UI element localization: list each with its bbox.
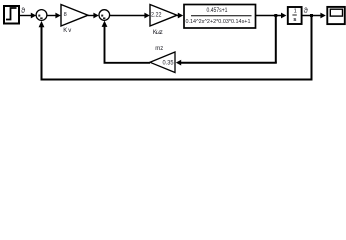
- wire Kv to sum2: [88, 13, 99, 19]
- wire sum1 to gain Kv: [47, 13, 61, 19]
- label mz: [155, 46, 163, 52]
- gain Kwz triangle value 2.22: [150, 5, 177, 27]
- signal label theta: [304, 6, 308, 15]
- gain Kv triangle: [61, 5, 88, 27]
- integrator block 1/s: [288, 7, 302, 24]
- wire inner feedback vertical from node: [275, 16, 277, 63]
- svg-text:s: s: [293, 17, 296, 23]
- svg-text:ϑ: ϑ: [21, 6, 25, 15]
- sum junction 1: [36, 10, 47, 21]
- svg-text:2.22: 2.22: [151, 12, 162, 18]
- wire Kwz to plant: [177, 13, 183, 19]
- wire sum2 to gain Kwz: [110, 13, 150, 19]
- svg-text:8: 8: [64, 12, 67, 18]
- svg-text:0.14^2s^2+2*0.03*0.14s+1: 0.14^2s^2+2*0.03*0.14s+1: [186, 19, 251, 25]
- svg-text:0.35: 0.35: [163, 60, 175, 66]
- wire plant to integrator: [256, 13, 287, 19]
- svg-text:mz: mz: [155, 46, 163, 52]
- wire outer feedback vertical from node: [311, 16, 313, 80]
- svg-text:0.457s+1: 0.457s+1: [207, 8, 229, 14]
- svg-text:1: 1: [294, 8, 297, 14]
- svg-text:Kωz: Kωz: [153, 30, 163, 36]
- label Kv: [63, 28, 71, 34]
- svg-text:Kv: Kv: [63, 28, 71, 34]
- plant transfer function block: [184, 5, 256, 29]
- step source block: [4, 6, 19, 24]
- wire outer feedback bottom horizontal: [41, 79, 313, 81]
- wire outer feedback to sum1 bottom: [39, 21, 45, 80]
- signal label theta-ref: [21, 6, 25, 15]
- svg-text:ϑ: ϑ: [304, 6, 308, 15]
- wire inner feedback horizontal to mz: [176, 60, 277, 66]
- wire integrator to scope: [302, 13, 326, 19]
- wire mz to sum2 bottom: [102, 21, 150, 63]
- node branch to mz feedback: [274, 14, 277, 17]
- scope block: [327, 7, 345, 24]
- node branch to outer feedback: [310, 14, 313, 17]
- label Kwz: [153, 30, 163, 36]
- wire step to sum1: [20, 13, 36, 19]
- gain mz triangle value 0.35: [150, 52, 175, 73]
- sum junction 2: [99, 10, 110, 21]
